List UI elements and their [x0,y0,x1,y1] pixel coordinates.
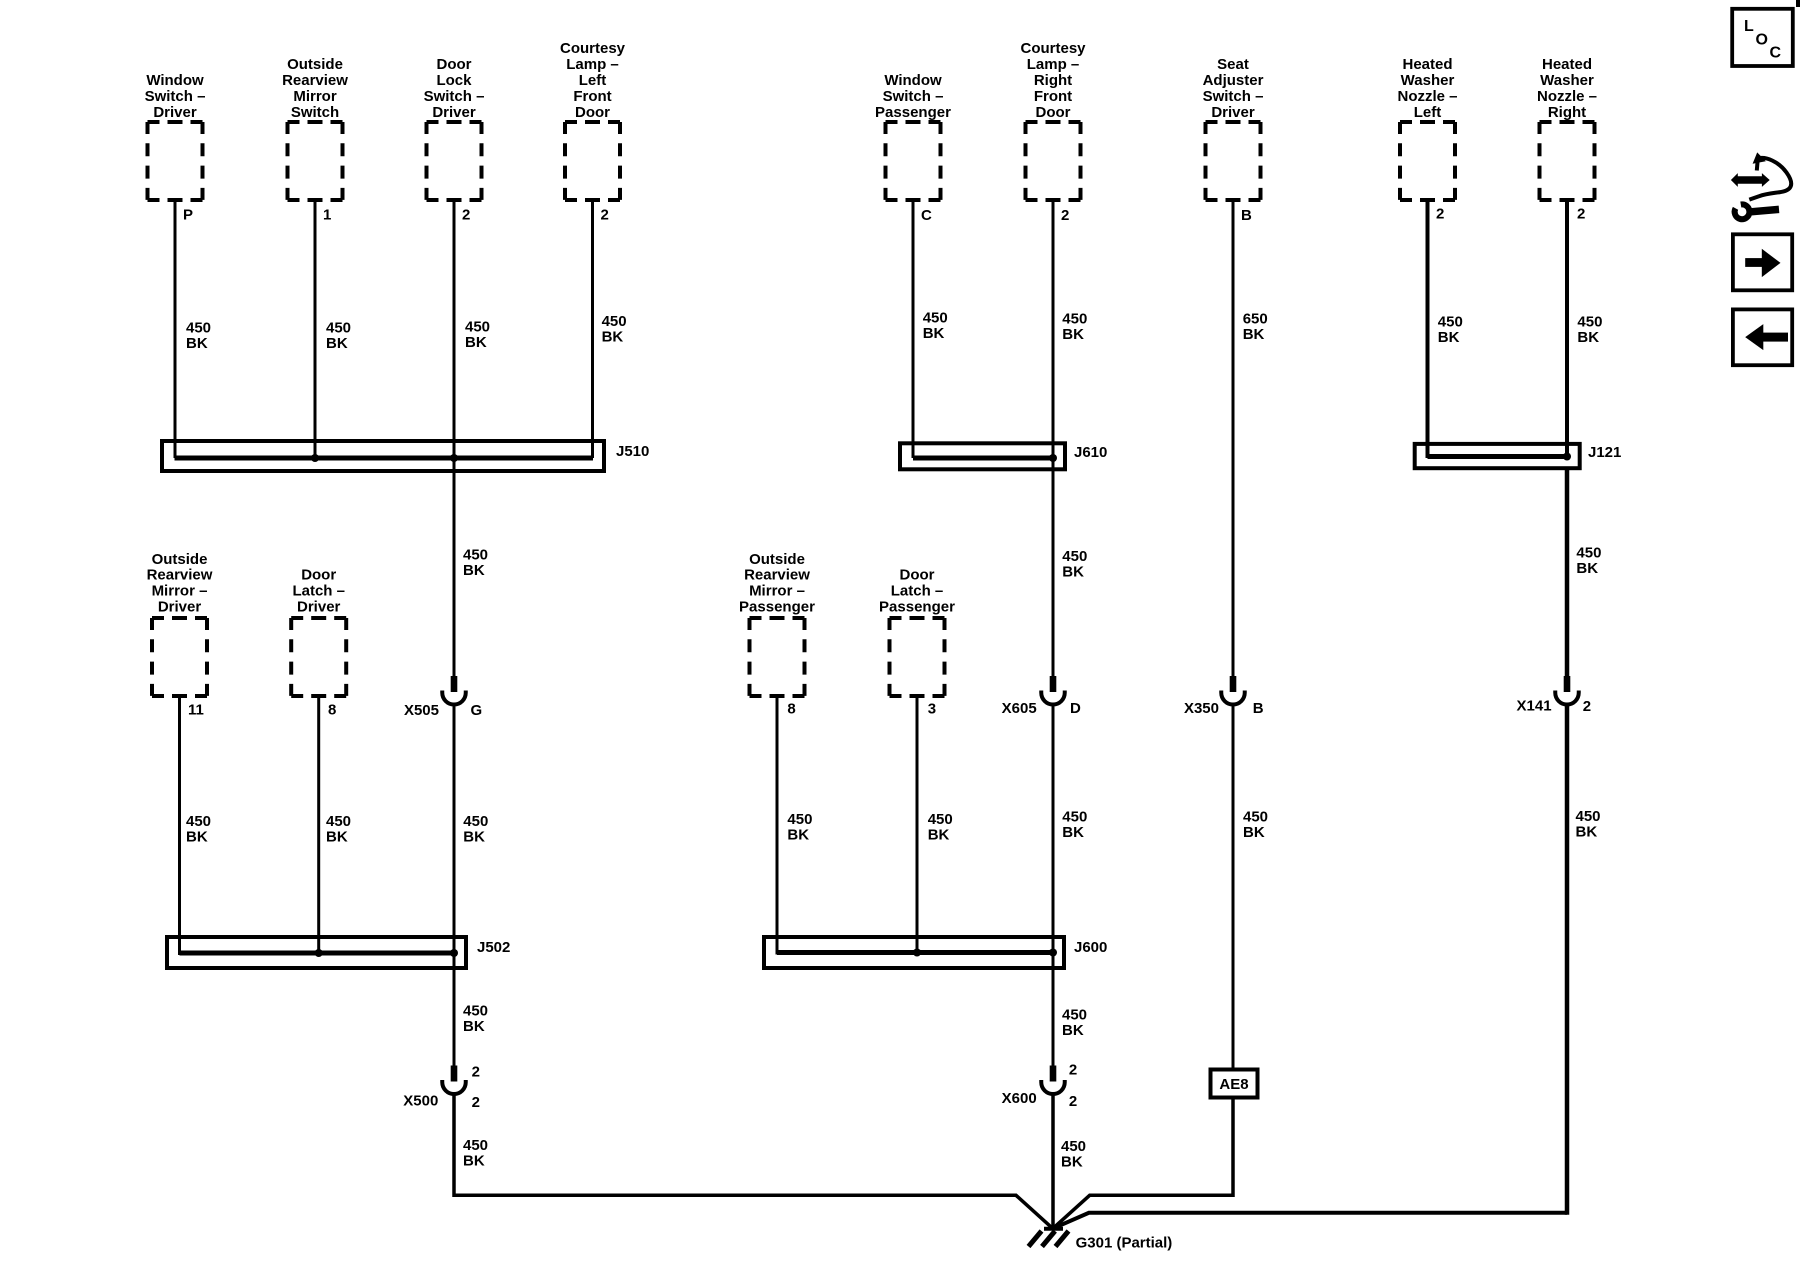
wire: Heated Washer Nozzle-Left pin 2 to splice J121 [1426,200,1430,458]
svg-text:Passenger: Passenger [879,599,955,616]
component box: Outside Rearview Mirror - Driver [147,551,213,696]
svg-text:2: 2 [1583,698,1591,715]
svg-text:1: 1 [323,207,331,224]
svg-text:B: B [1253,700,1264,717]
svg-text:Left: Left [1414,104,1442,121]
svg-text:BK: BK [1438,329,1460,346]
svg-text:L: L [1744,18,1754,35]
svg-text:BK: BK [186,829,208,846]
component box: Courtesy Lamp - Right Front Door [1020,40,1086,200]
junction dot on J502 bus at Door Latch-Driver wire [315,949,323,957]
svg-text:BK: BK [326,829,348,846]
wire: splice J502 to connector X500 [453,953,456,1066]
component box: Door Latch - Passenger [879,567,955,696]
component box: Outside Rearview Mirror - Passenger [739,551,815,696]
svg-text:J610: J610 [1074,444,1107,461]
svg-text:BK: BK [463,1018,485,1035]
svg-text:450: 450 [1243,809,1268,826]
svg-text:450: 450 [1062,1006,1087,1023]
svg-text:3: 3 [928,701,936,718]
svg-text:450: 450 [463,1137,488,1154]
svg-text:X141: X141 [1517,698,1552,715]
inline connector X505 (terminal and cup) [442,676,466,705]
svg-text:G301 (Partial): G301 (Partial) [1076,1235,1173,1252]
svg-text:Lock: Lock [436,72,472,89]
svg-text:450: 450 [1061,1138,1086,1155]
component box: Door Lock Switch - Driver [424,56,485,200]
splice pack J510 [162,441,604,471]
component box: Window Switch - Driver [145,72,206,200]
svg-text:O: O [1756,32,1768,49]
svg-text:450: 450 [1577,313,1602,330]
svg-text:Driver: Driver [1211,104,1255,121]
wire: splice J510 to connector X505 [453,458,456,676]
wire: Window Switch-Passenger pin C to splice J610 [912,200,915,458]
svg-text:Window: Window [884,72,942,89]
splice pack J121 [1415,444,1580,468]
junction dot on J610 bus at Courtesy Lamp-Right wire [1049,454,1057,462]
wire: X600 straight down to ground G301 [1051,1094,1055,1229]
svg-text:8: 8 [328,702,336,719]
svg-text:Mirror: Mirror [293,88,337,105]
svg-text:BK: BK [923,325,945,342]
inline connector X600 (terminal and cup) [1041,1066,1065,1095]
svg-text:BK: BK [1062,824,1084,841]
svg-text:J502: J502 [477,939,510,956]
svg-text:Switch –: Switch – [145,88,206,105]
junction dot on J600 bus at Door Latch-Passenger wire [913,949,921,957]
svg-text:2: 2 [1061,207,1069,224]
svg-text:Left: Left [579,72,607,89]
wire: AE8 down and left to ground G301 [1053,1098,1233,1229]
svg-text:2: 2 [1577,206,1585,223]
inline connector X350 (terminal and cup) [1221,676,1245,705]
svg-text:C: C [921,207,932,224]
svg-text:Outside: Outside [152,551,208,568]
svg-text:Door: Door [575,104,610,121]
wire: splice J121 to connector X141 [1565,468,1570,676]
svg-text:D: D [1070,700,1081,717]
LOC icon box (top right) [1732,9,1793,66]
svg-text:Seat: Seat [1217,56,1249,73]
back arrow icon box [1733,309,1792,365]
svg-text:Front: Front [1034,88,1072,105]
svg-text:450: 450 [463,1003,488,1020]
wire: connector X505 to splice J502 [453,705,456,956]
svg-text:Lamp –: Lamp – [1027,56,1080,73]
svg-text:P: P [183,207,193,224]
ground symbol G301 [1029,1229,1069,1247]
wire: Outside Rearview Mirror-Passenger pin 8 to splice J600 [776,696,779,955]
svg-text:BK: BK [463,829,485,846]
svg-text:Passenger: Passenger [875,104,951,121]
wire: splice J600 to connector X600 [1052,953,1055,1066]
svg-text:Switch –: Switch – [1203,88,1264,105]
wire: Door Lock Switch-Driver pin 2 to splice J510 [453,200,456,458]
svg-text:Rearview: Rearview [147,567,213,584]
svg-text:Driver: Driver [153,104,197,121]
svg-text:BK: BK [463,562,485,579]
svg-text:Door: Door [1036,104,1071,121]
navigation icon: wrench [1735,204,1779,219]
svg-text:450: 450 [463,813,488,830]
svg-text:B: B [1241,207,1252,224]
svg-text:450: 450 [928,811,953,828]
svg-text:Mirror –: Mirror – [749,583,805,600]
component box: Seat Adjuster Switch - Driver [1203,56,1264,200]
junction dot on J510 bus at Door Lock Switch wire [450,454,458,462]
svg-text:X605: X605 [1002,700,1037,717]
svg-text:Washer: Washer [1401,72,1455,89]
svg-text:BK: BK [1243,326,1265,343]
wire: X500 down and right to ground G301 [454,1094,1053,1229]
svg-text:BK: BK [602,329,624,346]
svg-text:BK: BK [928,827,950,844]
svg-text:Door: Door [437,56,472,73]
svg-text:2: 2 [472,1094,480,1111]
svg-text:2: 2 [1436,206,1444,223]
wire: connector X141 down toward ground [1565,705,1570,1215]
svg-text:450: 450 [1438,313,1463,330]
svg-text:Nozzle –: Nozzle – [1397,88,1457,105]
wire: Door Latch-Driver pin 8 to splice J502 [317,696,320,955]
svg-text:8: 8 [787,701,795,718]
splice pack J600 [764,937,1064,968]
junction dot on J510 bus at Outside Rearview Mirror Switch wire [311,454,319,462]
svg-text:Switch: Switch [291,104,339,121]
svg-text:2: 2 [1069,1062,1077,1079]
svg-text:450: 450 [923,309,948,326]
svg-text:Switch –: Switch – [424,88,485,105]
svg-text:Outside: Outside [287,56,343,73]
inline connector X500 (terminal and cup) [442,1066,466,1095]
svg-text:Right: Right [1548,104,1586,121]
svg-text:450: 450 [463,547,488,564]
svg-text:X350: X350 [1184,700,1219,717]
junction dot on J600 bus at X605 wire [1049,949,1057,957]
component box: Outside Rearview Mirror Switch [282,56,348,200]
svg-text:Driver: Driver [432,104,476,121]
component box: Window Switch - Passenger [875,72,951,200]
svg-text:J600: J600 [1074,939,1107,956]
svg-text:BK: BK [326,335,348,352]
svg-text:BK: BK [1061,1153,1083,1170]
component box: Heated Washer Nozzle - Right [1537,56,1597,200]
svg-text:Rearview: Rearview [282,72,348,89]
wire: Courtesy Lamp-Right Front Door pin 2 to splice J610 [1052,200,1055,458]
svg-text:BK: BK [465,334,487,351]
splice pack J610 [900,443,1065,469]
svg-text:Door: Door [301,567,336,584]
wire: connector X350 to inline connector AE8 [1232,705,1235,1071]
svg-text:2: 2 [472,1064,480,1081]
svg-text:450: 450 [186,319,211,336]
svg-text:BK: BK [1062,1022,1084,1039]
svg-text:450: 450 [1576,808,1601,825]
svg-text:J510: J510 [616,443,649,460]
component box: Door Latch - Driver [291,567,346,696]
svg-text:BK: BK [1576,824,1598,841]
svg-text:Right: Right [1034,72,1072,89]
splice pack J502 [167,937,466,968]
svg-text:2: 2 [1069,1093,1077,1110]
wire: Outside Rearview Mirror-Driver pin 11 to splice J502 [178,696,181,955]
svg-text:450: 450 [602,313,627,330]
navigation icon: curved arrow [1749,152,1791,199]
wire: Outside Rearview Mirror Switch pin 1 to splice J510 [314,200,317,458]
svg-text:BK: BK [1243,824,1265,841]
svg-text:Driver: Driver [158,599,202,616]
component box: Courtesy Lamp - Left Front Door [560,40,626,200]
svg-text:Lamp –: Lamp – [566,56,619,73]
svg-text:Courtesy: Courtesy [1020,40,1086,57]
svg-text:J121: J121 [1588,444,1621,461]
svg-text:BK: BK [1577,329,1599,346]
svg-text:Washer: Washer [1540,72,1594,89]
svg-text:650: 650 [1243,310,1268,327]
svg-text:BK: BK [463,1153,485,1170]
svg-text:450: 450 [1062,809,1087,826]
inline connector AE8 [1211,1070,1258,1098]
svg-text:Front: Front [573,88,611,105]
wire: Window Switch-Driver pin P to splice J510 [174,200,177,458]
svg-text:BK: BK [1062,326,1084,343]
wire: Courtesy Lamp-Left Front Door pin 2 to splice J510 [591,200,594,458]
svg-text:Window: Window [146,72,204,89]
svg-text:Latch –: Latch – [292,583,345,600]
svg-text:450: 450 [1062,310,1087,327]
svg-text:450: 450 [465,319,490,336]
svg-text:Door: Door [900,567,935,584]
svg-text:BK: BK [1576,560,1598,577]
svg-text:450: 450 [787,811,812,828]
svg-text:Nozzle –: Nozzle – [1537,88,1597,105]
svg-text:BK: BK [186,335,208,352]
navigation icon: double-headed arrow [1731,173,1770,187]
wire: Door Latch-Passenger pin 3 to splice J600 [916,696,919,955]
svg-text:Adjuster: Adjuster [1203,72,1264,89]
svg-text:Heated: Heated [1542,56,1592,73]
svg-text:Courtesy: Courtesy [560,40,626,57]
svg-text:BK: BK [1062,564,1084,581]
svg-text:Latch –: Latch – [891,583,944,600]
svg-text:BK: BK [787,827,809,844]
svg-text:C: C [1770,45,1782,62]
svg-text:450: 450 [326,319,351,336]
svg-text:Switch –: Switch – [883,88,944,105]
svg-text:Rearview: Rearview [744,567,810,584]
junction dot on J502 bus at X505 wire [450,949,458,957]
wire: Heated Washer Nozzle-Right pin 2 to splice J121 [1565,200,1569,458]
page edge mark (top right corner) [1796,0,1800,7]
svg-text:450: 450 [186,813,211,830]
svg-text:11: 11 [188,702,204,719]
svg-text:G: G [471,702,483,719]
svg-text:X600: X600 [1002,1090,1037,1107]
svg-text:Heated: Heated [1402,56,1452,73]
wire: Seat Adjuster Switch-Driver pin B to connector X350 [1232,200,1235,676]
wire: splice J610 to connector X605 [1052,458,1055,676]
forward arrow icon box [1733,234,1792,290]
component box: Heated Washer Nozzle - Left [1397,56,1457,200]
svg-text:X505: X505 [404,702,439,719]
svg-text:AE8: AE8 [1219,1076,1248,1093]
svg-text:2: 2 [601,207,609,224]
svg-text:Passenger: Passenger [739,599,815,616]
svg-text:450: 450 [1062,548,1087,565]
inline connector X141 (terminal and cup) [1555,676,1579,705]
svg-text:2: 2 [462,207,470,224]
svg-text:Driver: Driver [297,599,341,616]
svg-text:Outside: Outside [749,551,805,568]
wire: connector X605 to splice J600 [1052,705,1055,955]
inline connector X605 (terminal and cup) [1041,676,1065,705]
svg-text:450: 450 [1576,545,1601,562]
junction dot on J121 bus at Heated Washer Nozzle-Right wire [1563,453,1571,461]
svg-text:450: 450 [326,813,351,830]
svg-text:X500: X500 [403,1093,438,1110]
svg-text:Mirror –: Mirror – [152,583,208,600]
wire: X141 branch left run to ground G301 [1053,1213,1567,1229]
